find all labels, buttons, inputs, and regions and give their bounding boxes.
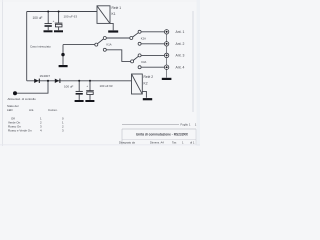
wire K1A up-throw to K2A common [106,37,130,39]
cable shield node [61,53,64,56]
svg-text:LED: LED [7,108,13,112]
svg-text:Ant. 2: Ant. 2 [176,42,185,46]
ground under C3 [75,100,84,102]
relay K2 coil [132,74,143,94]
svg-text:Cavo intrecciato: Cavo intrecciato [30,45,51,49]
wire to Ant.1 [141,31,164,33]
wire V+ top rail [27,11,97,13]
shielded cable drop [62,45,64,65]
ground under C4 [85,100,94,102]
ground under C2 [54,30,63,32]
switch K1A [95,37,107,52]
title block [119,122,197,144]
connector Ant.3 [164,53,168,57]
svg-text:100 uF: 100 uF [64,85,74,89]
ground under C1 [44,30,53,32]
ground under connector bus [162,78,172,80]
svg-text:K2A: K2A [141,36,146,40]
svg-text:K1: K1 [112,12,116,16]
svg-text:Tav.: Tav. [172,141,177,145]
svg-text:K3A: K3A [141,60,146,64]
connector Ant.4 [164,65,168,69]
svg-text:Ant. 1: Ant. 1 [176,30,185,34]
svg-text:100 uF 63: 100 uF 63 [100,84,113,88]
svg-text:Ant. 4: Ant. 4 [176,65,185,69]
wire K1A down-throw to K3A common [106,50,130,62]
wire bottom supply row [27,80,132,82]
capacitor C2 100uF 63 [55,11,63,31]
node input/diode junction [47,80,49,82]
svg-text:K1A: K1A [107,43,112,47]
ground under K2 [143,98,152,100]
svg-text:Ant.: Ant. [29,108,34,112]
ground under K1 [108,30,118,32]
capacitor C3 100uF [76,80,83,100]
svg-text:Ant. 3: Ant. 3 [176,54,185,58]
svg-text:Curren.: Curren. [48,108,58,112]
svg-text:di 1: di 1 [190,141,195,145]
wire K1 to ground [110,23,113,30]
wire to Ant.2 [141,43,164,45]
antenna connector shield bus [166,32,168,78]
connector Ant.1 [164,30,168,34]
svg-text:Disegnato da: Disegnato da [119,141,135,145]
wire to Ant.4 [141,66,164,68]
svg-text:Alimentaz. di controllo: Alimentaz. di controllo [8,97,37,101]
switch K3A [131,54,142,69]
wire K2 to ground [142,91,146,97]
diode D1 1N4007 [34,79,40,83]
capacitor C1 100uF [45,11,52,31]
svg-text:Rosso e Verde On: Rosso e Verde On [8,128,32,132]
svg-text:100 uF: 100 uF [33,16,43,20]
svg-text:Foglio 1: Foglio 1 [181,122,191,126]
switch K2A [130,30,141,45]
svg-text:Relè 1: Relè 1 [112,6,122,10]
diode D2 1N4007 [55,79,61,83]
relay K1 coil [97,6,110,24]
connector Ant.2 [164,42,168,46]
svg-text:+: + [53,19,55,23]
page background [0,0,200,146]
wire common feed to switch K1A [63,44,95,46]
svg-text:Dimens. A4: Dimens. A4 [150,141,164,145]
svg-text:K2: K2 [144,82,148,86]
svg-text:+: + [86,84,88,88]
LED state table [7,104,64,133]
ground under cable [59,65,68,67]
svg-text:1N4007: 1N4007 [40,74,51,78]
wire control input [17,81,48,93]
svg-text:Relè 2: Relè 2 [144,75,154,79]
wire left rail [26,12,28,81]
svg-text:100 uF 63: 100 uF 63 [64,15,78,19]
control input terminal [13,91,17,95]
wire to Ant.3 [141,54,164,56]
frame right edge [192,11,194,112]
capacitor C4 100uF 63 [86,80,94,100]
svg-text:Unità di commutazione - RS232R: Unità di commutazione - RS232RX [136,132,189,136]
